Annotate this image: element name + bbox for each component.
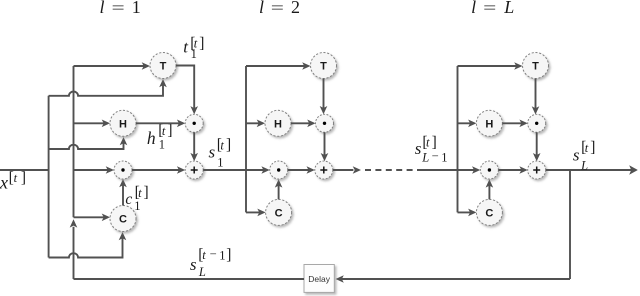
wire s_1 output to layer 2 bbox=[203, 166, 270, 174]
wire feed to C1 bottom with hop bbox=[49, 232, 127, 258]
wire product to adder left l=2 bbox=[288, 166, 315, 174]
product node T2*H2 bbox=[316, 114, 334, 132]
gate TL bbox=[523, 53, 549, 79]
node s_L^[t-1] label bbox=[190, 246, 231, 279]
wire s_2 output arrow bbox=[333, 166, 361, 174]
svg-text:1: 1 bbox=[159, 137, 165, 151]
product node s*CL bbox=[480, 161, 498, 179]
gate H1 bbox=[110, 110, 136, 136]
svg-text:L: L bbox=[421, 150, 429, 164]
svg-text:C: C bbox=[119, 214, 127, 226]
wire product to adder left l=1 bbox=[132, 166, 185, 174]
svg-text:l: l bbox=[471, 0, 476, 17]
wire feed to C2 left bbox=[246, 209, 266, 217]
svg-text:]: ] bbox=[226, 246, 231, 263]
wire feed to T1 bottom with hop bbox=[49, 79, 167, 96]
wire recurrent distribution vertical l=1 bbox=[73, 66, 75, 217]
node s_L^[t] label bbox=[573, 139, 596, 172]
gate H2 bbox=[265, 110, 291, 136]
wire TL output down to product node bbox=[532, 79, 540, 115]
svg-text:1: 1 bbox=[134, 199, 140, 213]
svg-text:=: = bbox=[483, 0, 496, 17]
svg-text:s: s bbox=[209, 142, 216, 161]
svg-text:1: 1 bbox=[132, 0, 141, 17]
svg-text:1: 1 bbox=[217, 155, 223, 169]
svg-text:c: c bbox=[125, 191, 132, 208]
svg-text:−: − bbox=[210, 247, 217, 261]
svg-text:1: 1 bbox=[219, 248, 225, 262]
wire s_L-1 into layer L bbox=[419, 166, 480, 174]
wire feedback into delay bbox=[336, 275, 571, 283]
wire T2 output down to product node bbox=[320, 79, 328, 115]
wire x distribution vertical bbox=[48, 96, 50, 258]
wire T1 output to product node bbox=[176, 66, 198, 115]
node h_1^[t] label bbox=[147, 122, 173, 151]
svg-text:t: t bbox=[220, 139, 224, 153]
wire CL output up to product node bbox=[486, 179, 494, 199]
delay box bbox=[304, 265, 334, 293]
svg-text:]: ] bbox=[144, 184, 149, 201]
svg-text:s: s bbox=[573, 145, 580, 164]
wire delay output back to l=1 bbox=[74, 278, 305, 280]
svg-text:t: t bbox=[162, 124, 166, 138]
svg-text:H: H bbox=[485, 118, 493, 130]
svg-text:T: T bbox=[532, 61, 539, 73]
svg-text:T: T bbox=[320, 61, 327, 73]
adder node l=1 bbox=[185, 161, 203, 179]
svg-text:T: T bbox=[160, 61, 167, 73]
gate CL bbox=[476, 199, 502, 225]
node t_1^[t] label bbox=[183, 35, 204, 61]
svg-text:1: 1 bbox=[441, 150, 447, 164]
node s_L-1^[t] label bbox=[415, 134, 448, 165]
wire feedback branch down bbox=[569, 170, 571, 279]
product node T1*H1 bbox=[185, 114, 203, 132]
wire x input bbox=[0, 169, 49, 171]
product node s*C1 bbox=[114, 161, 132, 179]
svg-text:t: t bbox=[585, 141, 589, 155]
node header l = 1 bbox=[100, 0, 141, 17]
wire feed to H1 bottom with hop bbox=[49, 137, 128, 149]
wire dashed continuation between layers bbox=[365, 169, 419, 171]
wire s_L output to right edge bbox=[546, 165, 638, 175]
product node TL*HL bbox=[528, 114, 546, 132]
wire feed to H1 left bbox=[74, 120, 111, 128]
wire HL output to product node bbox=[502, 120, 527, 128]
node c_1^[t] label bbox=[125, 184, 148, 213]
wire feed to T2 left bbox=[246, 62, 311, 70]
wire product down to adder l=L bbox=[533, 132, 541, 161]
wire H2 output to product node bbox=[291, 120, 316, 128]
wire feed to TL left bbox=[458, 62, 523, 70]
adder node l=2 bbox=[315, 161, 333, 179]
node s_1^[t] label bbox=[209, 137, 232, 170]
svg-text:]: ] bbox=[226, 137, 231, 154]
svg-text:L: L bbox=[503, 0, 514, 17]
wire product to adder left l=L bbox=[498, 166, 527, 174]
wire C2 output up to product node bbox=[275, 179, 283, 199]
svg-text:x: x bbox=[0, 173, 8, 193]
svg-text:t: t bbox=[202, 248, 206, 262]
node header l = L bbox=[471, 0, 514, 17]
svg-text:h: h bbox=[147, 128, 156, 148]
svg-text:L: L bbox=[580, 158, 588, 172]
wire product down to adder l=2 bbox=[321, 132, 329, 161]
wire feed to T1 left bbox=[74, 62, 151, 70]
svg-text:2: 2 bbox=[291, 0, 300, 17]
wire delayed state rising into l=1 junction bbox=[70, 219, 78, 279]
svg-text:L: L bbox=[198, 265, 206, 279]
svg-text:]: ] bbox=[199, 35, 204, 52]
svg-text:]: ] bbox=[21, 170, 26, 187]
svg-text:s: s bbox=[190, 255, 197, 274]
svg-text:l: l bbox=[100, 0, 105, 17]
svg-text:t: t bbox=[14, 171, 18, 185]
wire product down to adder l=1 bbox=[190, 132, 198, 161]
svg-text:s: s bbox=[415, 139, 422, 158]
svg-text:l: l bbox=[259, 0, 264, 17]
node header l = 2 bbox=[259, 0, 300, 17]
adder node l=L bbox=[528, 161, 546, 179]
svg-text:t: t bbox=[426, 136, 430, 150]
gate T2 bbox=[311, 53, 337, 79]
wire layer-L state distribution vertical bbox=[457, 66, 459, 212]
svg-text:C: C bbox=[485, 207, 493, 219]
gate C1 bbox=[110, 206, 136, 232]
svg-text:=: = bbox=[112, 0, 125, 17]
product node s1*C2 bbox=[270, 161, 288, 179]
svg-text:H: H bbox=[274, 118, 282, 130]
gate HL bbox=[476, 110, 502, 136]
svg-text:=: = bbox=[271, 0, 284, 17]
wire H1 output to product node bbox=[136, 120, 185, 128]
gate C2 bbox=[266, 199, 292, 225]
wire feed to C1 left bbox=[74, 214, 111, 222]
svg-text:Delay: Delay bbox=[308, 274, 330, 284]
wire layer-2 state distribution vertical bbox=[245, 66, 247, 212]
svg-text:1: 1 bbox=[191, 47, 197, 61]
wire feed to product node left l=1 bbox=[74, 166, 115, 174]
wire feed to CL left bbox=[458, 209, 477, 217]
wire feed to H2 left bbox=[246, 120, 265, 128]
svg-text:C: C bbox=[275, 207, 283, 219]
node x^[t] input label bbox=[0, 170, 26, 193]
wire feed to HL left bbox=[458, 120, 477, 128]
wire C1 output up to product node bbox=[119, 179, 127, 206]
svg-text:−: − bbox=[432, 149, 439, 163]
svg-text:]: ] bbox=[167, 122, 172, 139]
gate T1 bbox=[150, 53, 176, 79]
svg-text:t: t bbox=[138, 186, 142, 200]
svg-text:H: H bbox=[119, 118, 127, 130]
svg-text:]: ] bbox=[590, 139, 595, 156]
